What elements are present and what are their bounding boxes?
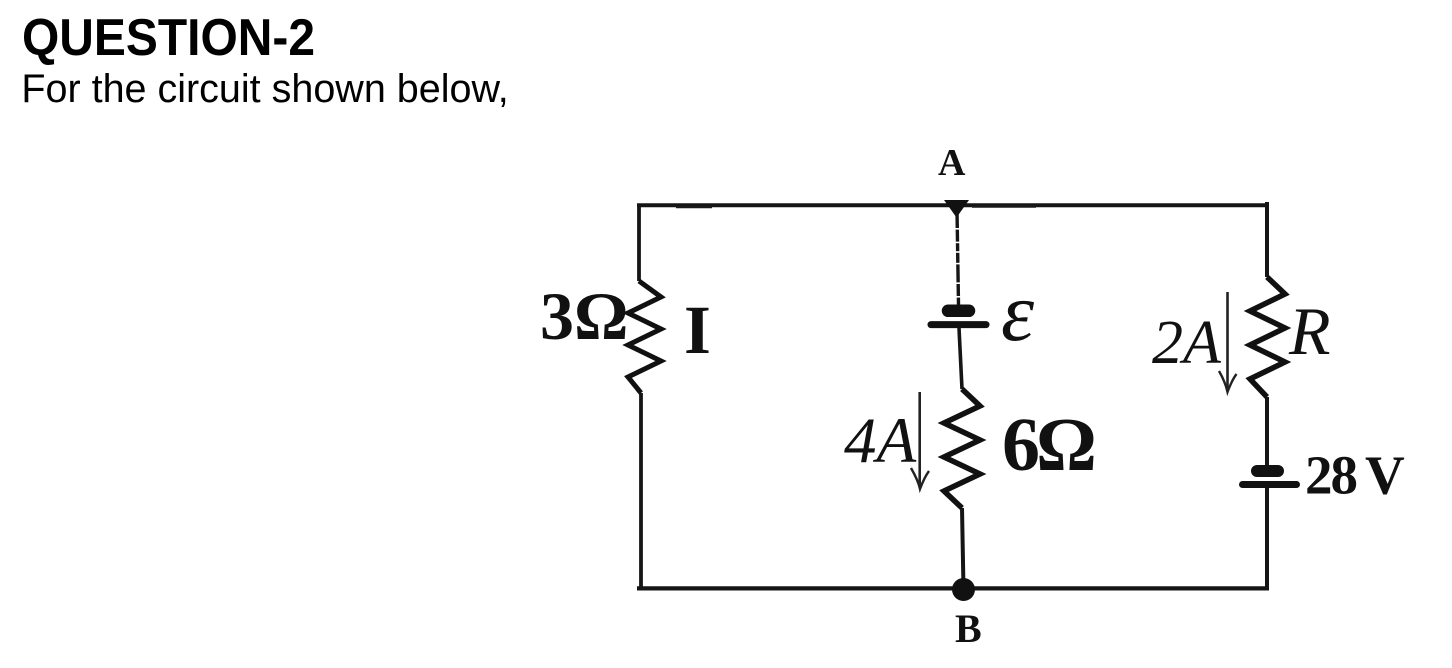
wire top: [637, 205, 1269, 207]
battery EMF (middle): [931, 311, 986, 325]
node A (junction triangle): [944, 200, 969, 218]
svg-text:ε: ε: [1001, 266, 1035, 359]
battery 28V (right): [1243, 471, 1297, 485]
wire middle (A to battery): [957, 210, 959, 305]
resistor R (zigzag): [1250, 277, 1285, 397]
svg-text:28 V: 28 V: [1305, 445, 1405, 506]
resistor 3ohm (zigzag): [628, 281, 661, 393]
svg-text:2A: 2A: [1152, 309, 1222, 377]
title text: [22, 12, 315, 64]
svg-text:I: I: [684, 292, 711, 368]
svg-text:R: R: [1288, 293, 1331, 369]
svg-text:6Ω: 6Ω: [1002, 403, 1094, 487]
subtitle text: [21, 70, 508, 110]
svg-text:4A: 4A: [844, 405, 917, 477]
resistor 6ohm (zigzag): [944, 389, 980, 508]
node B (junction dot): [952, 578, 975, 601]
wire left: [639, 204, 643, 589]
svg-text:A: A: [938, 142, 966, 184]
wire middle (battery to 6ohm resistor): [959, 328, 962, 389]
wire bottom: [637, 586, 1269, 590]
wire right: [1265, 202, 1269, 589]
svg-text:3Ω: 3Ω: [540, 278, 628, 354]
svg-text:B: B: [955, 606, 982, 651]
wire middle (6ohm resistor to B): [962, 508, 964, 589]
current arrow 4A: [911, 392, 929, 489]
current arrow 2A: [1219, 292, 1237, 392]
